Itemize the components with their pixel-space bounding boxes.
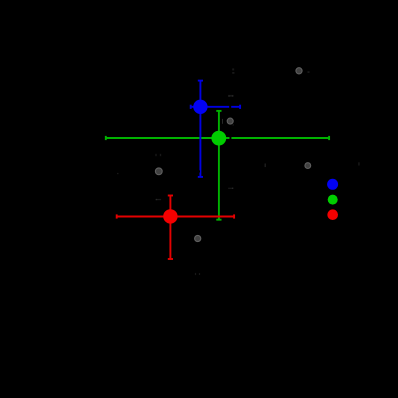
blue data point	[193, 100, 207, 114]
gray scatter dot 4	[195, 235, 201, 241]
blue series error bars	[191, 81, 240, 177]
red data point	[163, 209, 177, 223]
faint tick mark left of legend	[265, 164, 266, 168]
gray scatter dot 2	[227, 118, 233, 124]
legend marker blue	[327, 179, 338, 190]
black occluder gap over blue horizontal bar	[229, 105, 231, 109]
legend marker red	[327, 209, 338, 220]
black notch on blue vertical bar	[198, 170, 200, 172]
faint tick mark near gray dot 2	[221, 119, 224, 124]
green series error bars	[106, 111, 329, 220]
red series error bars	[117, 196, 234, 260]
green data point	[211, 131, 226, 146]
brighter blips inside faint remnants	[156, 95, 234, 200]
black occluder gap over green horizontal bar	[230, 136, 232, 140]
gray scatter dot 1	[296, 68, 302, 74]
gray scatter dot 5	[305, 163, 311, 169]
legend marker green	[328, 195, 338, 205]
faint text remnants (nearly black)	[117, 68, 360, 275]
gray scatter dot 3	[155, 168, 162, 175]
